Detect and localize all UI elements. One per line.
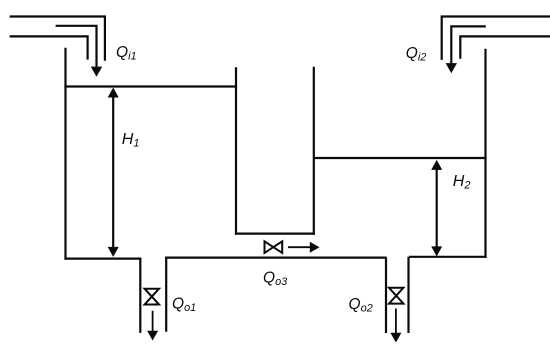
outlet pipe 2 left wall (385, 258, 387, 333)
tank 1 water surface (64, 85, 237, 87)
middle wall bottom (235, 233, 315, 235)
svg-text:Qi2: Qi2 (406, 45, 427, 64)
tank 2 water surface (314, 157, 487, 159)
inlet flow arrow Qi1 (56, 26, 97, 67)
tank 1 left wall (64, 48, 66, 260)
outflow arrow Qo1 (152, 311, 154, 332)
middle wall left (235, 67, 237, 235)
valve Qo1 (145, 289, 159, 305)
H2 dimension arrow (436, 169, 438, 247)
svg-text:H2: H2 (453, 173, 471, 192)
tank 1 bottom (64, 258, 141, 260)
inlet pipe 2 outer wall (442, 17, 550, 60)
svg-text:Qo1: Qo1 (172, 295, 196, 314)
inlet pipe 1 outer wall (10, 17, 105, 61)
middle wall right (313, 67, 315, 235)
outlet pipe 1 left wall (139, 259, 141, 333)
inlet pipe 1 inner wall (10, 36, 88, 59)
H1 dimension arrow (112, 97, 114, 248)
svg-text:Qi1: Qi1 (116, 44, 137, 63)
outlet pipe 2 right wall (407, 257, 409, 333)
svg-text:Qo3: Qo3 (263, 269, 288, 288)
svg-text:H1: H1 (122, 131, 140, 150)
bottom channel line (165, 257, 387, 259)
valve Qo3 (265, 241, 283, 253)
inlet pipe 2 inner wall (460, 36, 550, 58)
tank 2 right wall (484, 49, 486, 258)
tank 2 bottom (409, 256, 487, 258)
outflow arrow Qo2 (395, 309, 397, 334)
valve Qo2 (389, 288, 403, 304)
outlet pipe 1 right wall (165, 258, 167, 332)
flow arrow Qo3 (288, 246, 310, 248)
inlet flow arrow Qi2 (451, 26, 486, 63)
svg-text:Qo2: Qo2 (349, 296, 373, 315)
